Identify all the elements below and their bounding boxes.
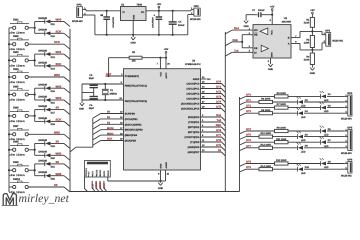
svg-text:W125-W4: W125-W4	[341, 117, 352, 120]
svg-text:D15: D15	[51, 90, 56, 93]
svg-text:DE: DE	[254, 47, 258, 50]
svg-text:3: 3	[96, 174, 97, 177]
svg-text:MAX485: MAX485	[282, 21, 292, 24]
capacitor C3 100uF/25V	[152, 11, 163, 36]
junction MCU ground	[159, 180, 161, 182]
MCU pin 17 (MOSI/OC2)PB3 net MOSI	[93, 127, 144, 135]
wire net SCK from SW2	[28, 40, 70, 49]
svg-text:LED: LED	[301, 116, 306, 119]
svg-text:1N4148: 1N4148	[38, 139, 47, 142]
svg-text:100nF: 100nF	[258, 9, 265, 12]
svg-text:D12: D12	[51, 35, 56, 38]
svg-text:D13: D13	[51, 56, 56, 59]
switch SW4	[9, 68, 29, 84]
diode D19 1N4148	[35, 139, 56, 148]
wire VCC stub pin 7	[157, 58, 161, 69]
wire ISP net MISO	[99, 181, 103, 192]
wire SW8 to diode pair node	[28, 144, 36, 156]
LED row D8: resistor R12 100R + LED D8 net DT7	[240, 142, 348, 153]
svg-text:uSw 12mm: uSw 12mm	[9, 98, 25, 101]
svg-text:GND: GND	[159, 163, 162, 168]
svg-text:RO: RO	[254, 29, 258, 32]
LED row D7: resistor R11 100R + LED D7 net DT6	[240, 137, 348, 148]
svg-text:DT4: DT4	[216, 101, 221, 104]
diode D11 1N4148	[35, 17, 56, 26]
wire net S0 from SW10	[28, 183, 70, 192]
svg-text:SW6: SW6	[13, 107, 19, 110]
svg-text:1N4148: 1N4148	[38, 171, 47, 174]
svg-text:S0: S0	[56, 160, 60, 164]
MCU pin 5 (INT1)PD3 net DT6	[188, 129, 225, 136]
svg-text:D21: D21	[51, 166, 56, 169]
svg-text:DT5: DT5	[216, 106, 221, 109]
wire net S0	[50, 106, 70, 115]
junction on common bus row 3	[8, 59, 10, 61]
wire GP2 pin2 to GND rail	[83, 15, 95, 35]
svg-text:W05: W05	[54, 130, 60, 134]
svg-text:AREF: AREF	[193, 78, 200, 81]
svg-text:DI: DI	[254, 51, 257, 54]
wire ISP net SCK	[103, 181, 107, 192]
svg-text:1N4148: 1N4148	[38, 151, 47, 154]
svg-text:(ADC3)PC3: (ADC3)PC3	[187, 98, 200, 101]
MCU pin 19 (SCK)PB5 net SCK	[93, 138, 137, 146]
svg-text:SCK: SCK	[103, 183, 106, 188]
svg-text:100uF/25V: 100uF/25V	[112, 16, 115, 27]
svg-text:MISO: MISO	[99, 182, 102, 188]
connector PROG1 ISP header	[85, 161, 111, 178]
wire U2 A pin 6 to node A	[291, 41, 322, 51]
wire net W01	[50, 50, 70, 59]
svg-text:(RXD)PD0: (RXD)PD0	[188, 116, 200, 119]
svg-text:R11 100R: R11 100R	[276, 138, 287, 141]
svg-text:VCC: VCC	[270, 30, 273, 35]
svg-text:LED: LED	[324, 166, 329, 169]
wire net Rxd U2 RO pin 1	[225, 27, 253, 34]
capacitor C5 22pF	[89, 74, 98, 93]
MCU pin 28 (ADC5/SCL)PC5 net DT5	[181, 106, 225, 113]
svg-text:2: 2	[92, 174, 93, 177]
wire net S0	[50, 160, 70, 169]
MCU pin 6 (XCK/T0)PD4 net DT7	[185, 134, 226, 141]
capacitor C2 100uF/25V	[100, 10, 115, 36]
wire XTAL2 from MCU pin 10	[82, 97, 124, 100]
svg-text:(TXD)PD1: (TXD)PD1	[188, 121, 200, 124]
connector GP6 W125-W2	[341, 158, 353, 177]
wire - GND rail	[95, 34, 188, 36]
svg-text:SW8: SW8	[13, 141, 19, 144]
wire SW9 to diode pair node	[28, 164, 36, 176]
svg-text:Txd: Txd	[217, 119, 222, 122]
wire GP2b pin2 to GND rail	[188, 15, 194, 35]
LED row D5: resistor R9 100R + LED D5 net DT4	[240, 126, 348, 137]
MCU pin 11 (T1)PD5 net DT8	[190, 139, 225, 146]
wire U2 RE DE tie	[241, 32, 253, 48]
svg-text:SW9: SW9	[13, 161, 19, 164]
MCU GND pin 8 stub	[158, 170, 160, 181]
svg-text:1N4148: 1N4148	[38, 17, 47, 20]
svg-text:PB7(XTAL2/TOSC2): PB7(XTAL2/TOSC2)	[125, 100, 147, 103]
bus - left vertical net bus	[69, 29, 71, 192]
svg-text:DT8: DT8	[216, 139, 221, 142]
svg-text:(ADC0)PC0: (ADC0)PC0	[187, 83, 200, 86]
svg-text:uSw 12mm: uSw 12mm	[9, 81, 25, 84]
svg-text:6: 6	[107, 174, 108, 177]
svg-text:W125-W4: W125-W4	[341, 152, 352, 155]
svg-text:SCK: SCK	[56, 29, 62, 33]
svg-text:GP2: GP2	[194, 5, 200, 8]
wire U2 GND pin 5	[268, 58, 271, 64]
svg-text:NC: NC	[207, 78, 211, 81]
svg-text:DT7: DT7	[216, 134, 221, 137]
wire net SCK	[50, 118, 70, 127]
svg-text:R5 100R: R5 100R	[277, 92, 286, 95]
junction on common bus row 4	[8, 76, 10, 78]
svg-text:(AIN0)PD6: (AIN0)PD6	[188, 146, 200, 149]
svg-text:100uF/25V: 100uF/25V	[152, 17, 155, 28]
wire U1 GND pin to GND rail	[132, 21, 134, 36]
wire net RSD	[225, 39, 242, 46]
wire net W02 from SW4	[28, 73, 70, 82]
svg-text:DT2: DT2	[216, 91, 221, 94]
svg-text:RE: RE	[254, 34, 258, 37]
wire GP2b pin1 to +5V rail	[191, 10, 194, 11]
wire - left pin bus to main bus	[70, 118, 93, 152]
wire net W04	[50, 96, 70, 105]
svg-text:W125-W2: W125-W2	[341, 174, 352, 177]
svg-text:510R: 510R	[304, 22, 310, 25]
bus - far right vertical to LED rows	[239, 97, 241, 192]
MCU pin 13 (AIN1)PD7 net S1	[188, 149, 226, 156]
svg-text:22pF: 22pF	[89, 107, 95, 110]
LED row D1: resistor R5 100R + LED D1 net DT0	[240, 91, 348, 102]
svg-text:100nF: 100nF	[178, 24, 185, 27]
wire net SCK	[50, 29, 70, 38]
ground symbol below U2	[268, 64, 274, 71]
wire SW5 to diode pair node	[28, 88, 36, 100]
svg-text:GP2: GP2	[77, 4, 83, 7]
diode D18 1N4148	[35, 117, 56, 126]
svg-text:16MHz: 16MHz	[109, 93, 117, 96]
wire ISP +5V pin	[85, 177, 88, 192]
MCU pin 4 (INT0)PD2 net RSD	[188, 124, 225, 131]
connector GP3 W125-W2	[324, 29, 344, 46]
ground symbol below MCU	[158, 181, 164, 190]
svg-text:GP4: GP4	[347, 92, 353, 95]
crystal X1 16MHz	[102, 83, 118, 101]
svg-text:GP5: GP5	[347, 126, 353, 129]
svg-text:W06: W06	[56, 172, 62, 176]
svg-text:VO: VO	[141, 11, 145, 14]
wire SW3 to diode pair node	[28, 54, 36, 66]
svg-text:510R: 510R	[304, 59, 310, 62]
svg-text:uSw 12mm: uSw 12mm	[9, 154, 25, 157]
svg-text:LED: LED	[301, 172, 306, 175]
wire SW1 to diode pair node	[28, 22, 36, 34]
svg-text:AGND: AGND	[165, 162, 168, 169]
connector GP2 power input W125-W2	[72, 4, 86, 23]
svg-text:LED: LED	[301, 150, 306, 153]
svg-text:W04: W04	[56, 96, 62, 100]
svg-text:1N4148: 1N4148	[38, 29, 47, 32]
wire XTAL1 from MCU pin 9	[82, 81, 124, 84]
svg-text:VI: VI	[122, 11, 125, 14]
svg-text:S0: S0	[56, 140, 60, 144]
LED row D6: resistor R10 100R + LED D6 net DT5	[240, 131, 348, 142]
LED row D9: resistor R13 100R + LED D9 net DT8	[240, 158, 348, 169]
svg-text:(MISO)PB4: (MISO)PB4	[125, 134, 138, 137]
svg-text:A: A	[288, 43, 290, 46]
svg-text:5: 5	[104, 174, 105, 177]
svg-text:W125-W2: W125-W2	[332, 40, 343, 43]
capacitor C4 100nF	[169, 10, 185, 36]
wire net W03	[50, 84, 70, 93]
svg-text:1N4148: 1N4148	[38, 117, 47, 120]
wire ISP GND to MCU ground	[108, 177, 161, 181]
wire net W05	[50, 151, 70, 160]
MCU pin 26 (ADC3)PC3 net DT3	[187, 96, 226, 103]
MCU pin 10 PB7 label	[125, 100, 147, 103]
svg-text:D19: D19	[51, 145, 56, 148]
svg-text:Rxd: Rxd	[216, 114, 221, 117]
voltage regulator U1 7805	[121, 4, 147, 21]
svg-text:(ADC5/SCL)PC5: (ADC5/SCL)PC5	[181, 108, 200, 111]
MCU pin 25 (ADC2)PC2 net DT2	[187, 91, 226, 98]
switch SW9	[9, 161, 29, 177]
ground symbol at C7	[243, 15, 249, 28]
switch SW8	[9, 141, 29, 157]
svg-text:+5V: +5V	[270, 5, 275, 8]
resistor R4 510R	[304, 50, 315, 65]
junction on common bus row 9	[8, 169, 10, 171]
junction on common bus row 5	[8, 93, 10, 95]
wire R3 to +5V / VCC	[142, 57, 167, 59]
svg-text:VCC: VCC	[159, 71, 162, 76]
MCU pin 1 PC6/RESET	[106, 73, 140, 78]
diode D14 1N4148	[35, 61, 56, 70]
junction on common bus row 6	[8, 115, 10, 117]
bus - bottom horizontal	[70, 191, 240, 193]
svg-text:R7 100R: R7 100R	[277, 103, 286, 106]
svg-text:Txd: Txd	[234, 49, 239, 52]
switch SW10	[9, 178, 29, 194]
svg-text:SCK: SCK	[54, 40, 60, 44]
svg-text:ATMEGA8-PU: ATMEGA8-PU	[185, 63, 201, 66]
MCU pin 21 AREF NC	[193, 76, 211, 81]
svg-text:R9 100R: R9 100R	[277, 127, 286, 130]
svg-text:GND: GND	[268, 68, 274, 71]
svg-text:(INT1)PD3: (INT1)PD3	[188, 131, 200, 134]
MCU pin 3 (TXD)PD1 net Txd	[188, 119, 225, 126]
switch SW7	[9, 125, 29, 141]
svg-text:+5V: +5V	[164, 48, 169, 51]
MCU pin 9 PB6 label	[125, 84, 147, 87]
svg-text:SW7: SW7	[13, 125, 19, 128]
svg-text:DT1: DT1	[216, 86, 221, 89]
svg-text:D16: D16	[51, 102, 56, 105]
wire ISP net MOSI	[95, 181, 99, 192]
ground symbol below R4	[310, 65, 316, 75]
wire net SCK	[50, 62, 70, 71]
junction on common bus row 2	[8, 43, 10, 45]
watermark text mirley_net	[19, 191, 70, 205]
MCU pin 16 (SS/OC1B)PB2 net S2	[93, 122, 142, 130]
svg-text:W125-W2: W125-W2	[72, 20, 83, 23]
wire R3 to RESET pin	[108, 58, 110, 77]
svg-text:RST: RST	[106, 73, 112, 76]
svg-text:RSD: RSD	[216, 124, 221, 127]
svg-text:W03: W03	[56, 84, 62, 88]
wire U2 B pin 7 to node B	[291, 27, 322, 38]
svg-text:W05: W05	[56, 151, 62, 155]
switch SW2	[9, 35, 29, 51]
svg-text:(MOSI/OC2)PB3: (MOSI/OC2)PB3	[125, 129, 144, 132]
watermark logo mirley	[2, 194, 18, 206]
svg-text:SCK: SCK	[107, 138, 112, 141]
wire - input rail to 7805	[86, 10, 121, 12]
wire net W00	[50, 18, 70, 27]
svg-text:R8 100R: R8 100R	[261, 109, 270, 112]
svg-text:10k: 10k	[132, 59, 137, 62]
svg-text:S0: S0	[54, 183, 58, 187]
wire U2 VCC pin 8	[270, 15, 273, 25]
svg-text:GND: GND	[131, 41, 137, 44]
svg-text:(INT0)PD2: (INT0)PD2	[188, 126, 200, 129]
svg-text:MOSI: MOSI	[95, 182, 98, 189]
MCU pin 27 (ADC4/SDA)PC4 net DT4	[181, 101, 225, 108]
switch SW3	[9, 51, 29, 67]
svg-text:SCK: SCK	[56, 118, 62, 122]
svg-text:GP3: GP3	[325, 29, 331, 32]
MCU AGND pin 22 stub	[161, 170, 170, 181]
microcontroller U3 ATMEGA8-PU	[124, 60, 201, 170]
svg-text:D14: D14	[51, 68, 56, 71]
svg-text:MOSI: MOSI	[107, 127, 114, 130]
MCU pin 12 (AIN0)PD6 net DT9	[188, 144, 226, 151]
svg-text:SW10: SW10	[13, 178, 21, 181]
svg-text:(OC1A)PB1: (OC1A)PB1	[125, 118, 139, 121]
svg-text:R6 100R: R6 100R	[261, 98, 270, 101]
svg-text:SW4: SW4	[13, 68, 19, 71]
junction on common bus row 7	[8, 133, 10, 135]
wire net W06	[50, 172, 70, 181]
svg-text:(SCK)PB5: (SCK)PB5	[125, 140, 137, 143]
wire - +5V rail from U1 VO	[146, 10, 191, 12]
svg-text:(ADC1)PC1: (ADC1)PC1	[187, 88, 200, 91]
svg-text:1N4148: 1N4148	[38, 95, 47, 98]
svg-text:D10: D10	[305, 166, 310, 169]
svg-text:SW3: SW3	[13, 51, 19, 54]
svg-text:GP6: GP6	[347, 158, 353, 161]
svg-text:W01: W01	[56, 50, 62, 54]
svg-text:R12 100R: R12 100R	[261, 143, 272, 146]
wire net W05 from SW7	[28, 130, 70, 139]
svg-text:7805: 7805	[137, 4, 143, 7]
svg-text:B: B	[288, 37, 290, 40]
diode D17 1N4148	[35, 105, 56, 114]
svg-text:(SS/OC1B)PB2: (SS/OC1B)PB2	[125, 123, 142, 126]
svg-text:+5V: +5V	[310, 9, 315, 12]
MCU pin 2 (RXD)PD0 net Rxd	[188, 114, 225, 121]
diode D12 1N4148	[35, 29, 56, 38]
diode D22 1N4148	[35, 171, 56, 180]
diode D13 1N4148	[35, 50, 56, 59]
svg-text:GND: GND	[270, 52, 273, 57]
svg-text:R10 100R: R10 100R	[261, 132, 272, 135]
svg-text:GND: GND	[158, 187, 164, 190]
svg-text:PC6(RESET): PC6(RESET)	[125, 75, 139, 78]
switch SW5	[9, 85, 29, 101]
svg-text:(ICP)PB0: (ICP)PB0	[125, 113, 136, 116]
MCU pin 24 (ADC1)PC1 net DT1	[187, 86, 226, 93]
MCU pin 18 (MISO)PB4 net MISO	[93, 132, 138, 140]
svg-text:DT6: DT6	[216, 129, 221, 132]
ground symbol below U1	[131, 35, 137, 45]
svg-text:uSw 12mm: uSw 12mm	[9, 120, 25, 123]
connector GP4 W125-W4	[341, 92, 353, 121]
svg-text:GND: GND	[79, 107, 84, 110]
svg-text:DT3: DT3	[216, 96, 221, 99]
svg-text:D11: D11	[51, 23, 56, 26]
wire AVCC stub pin 20	[166, 58, 171, 69]
svg-text:(XCK/T0)PD4: (XCK/T0)PD4	[185, 136, 200, 139]
wire ISP net RST	[91, 181, 95, 192]
capacitor C6 22pF	[89, 93, 98, 110]
svg-text:R13 100R: R13 100R	[276, 159, 287, 162]
wire net S0	[50, 140, 70, 149]
svg-text:S0: S0	[56, 106, 60, 110]
junction on common bus row 8	[8, 149, 10, 151]
wire GP2 pin1 to +5V input rail	[83, 9, 87, 10]
svg-text:MISO: MISO	[107, 132, 113, 135]
MCU pin 23 (ADC0)PC0 net DT0	[187, 81, 226, 88]
resistor R3 10k	[109, 51, 142, 63]
LED row D2: resistor R6 100R + LED D2 net DT1	[240, 97, 348, 108]
svg-text:(T1)PD5: (T1)PD5	[190, 141, 200, 144]
resistor R1 510R	[304, 14, 315, 27]
connector GP5 W125-W4	[341, 126, 353, 155]
svg-text:(ADC4/SDA)PC4: (ADC4/SDA)PC4	[181, 103, 200, 106]
svg-text:AVCC: AVCC	[165, 72, 168, 78]
diode D16 1N4148	[35, 95, 56, 104]
resistor R2 120R	[304, 31, 315, 47]
svg-text:SW5: SW5	[13, 85, 19, 88]
power +5V symbol at U2	[270, 5, 275, 15]
transceiver U2 MAX485	[253, 17, 292, 58]
svg-text:DT0: DT0	[216, 81, 221, 84]
svg-text:1: 1	[88, 174, 89, 177]
diode D15 1N4148	[35, 84, 56, 93]
svg-text:+5V: +5V	[157, 3, 162, 6]
svg-text:D17: D17	[51, 111, 56, 114]
svg-text:(AIN1)PD7: (AIN1)PD7	[188, 151, 200, 154]
svg-text:120R: 120R	[304, 41, 310, 44]
svg-text:1N4148: 1N4148	[38, 50, 47, 53]
svg-text:D18: D18	[51, 123, 56, 126]
svg-text:mirley_net: mirley_net	[19, 191, 70, 205]
svg-text:22pF: 22pF	[89, 77, 95, 80]
capacitor C7 100nF	[246, 9, 272, 17]
svg-text:RSD: RSD	[233, 39, 238, 42]
svg-text:W00: W00	[56, 18, 62, 22]
svg-text:GND: GND	[310, 72, 316, 75]
svg-text:RST: RST	[91, 183, 94, 188]
svg-text:W125-W2: W125-W2	[190, 18, 201, 21]
bus - right vertical to U2	[224, 32, 226, 192]
power +5V symbol on rail	[157, 3, 162, 12]
svg-text:W02: W02	[54, 73, 60, 77]
svg-text:uSw 12mm: uSw 12mm	[9, 174, 25, 177]
